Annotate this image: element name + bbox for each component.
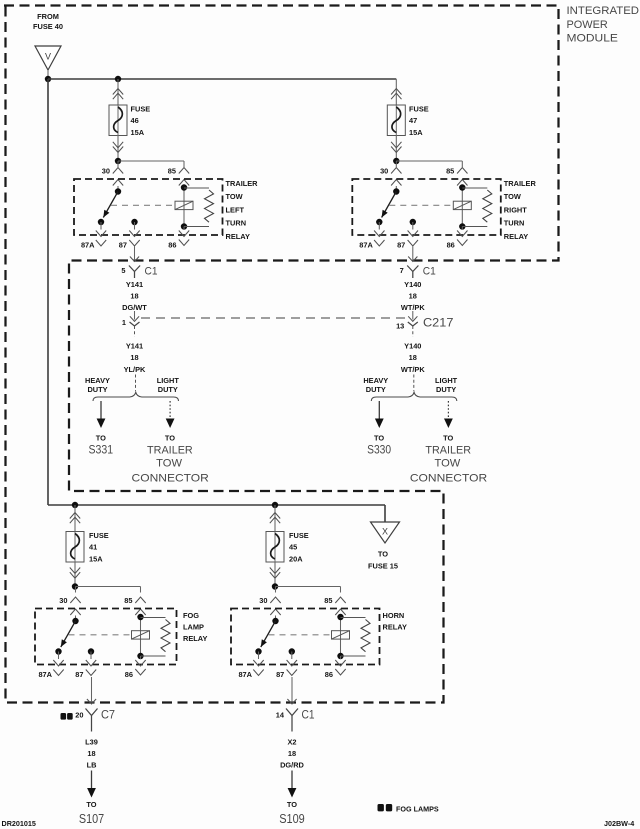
svg-text:HEAVY: HEAVY: [85, 376, 110, 385]
node: fuse 46 tap junction: [115, 76, 121, 82]
relay coil branch wire: [140, 616, 142, 657]
fuse 46 15A: [109, 105, 150, 138]
label TO S109: [279, 800, 305, 826]
svg-text:HORN: HORN: [383, 611, 405, 620]
pin 87 wire and chevrons: [129, 222, 139, 246]
wire label Y140 18 WT/PK: [401, 280, 425, 312]
power symbol X - to fuse 15: [371, 522, 400, 543]
svg-text:FOG LAMPS: FOG LAMPS: [396, 804, 439, 813]
svg-text:RELAY: RELAY: [504, 232, 528, 241]
pin 30 connector chevrons: [113, 168, 123, 186]
svg-text:5: 5: [121, 266, 125, 275]
wire: V triangle to top bus: [47, 70, 49, 79]
pin 87 wire and chevrons: [408, 222, 418, 246]
relay coil: [453, 201, 471, 209]
wire label L39 18 LB: [85, 738, 98, 770]
svg-text:V: V: [45, 52, 51, 62]
wire: relay feed split to pins 30 and 85: [396, 161, 462, 167]
label HEAVY DUTY: [363, 376, 388, 394]
svg-text:15A: 15A: [131, 128, 145, 137]
drawing number J02BW-4: [604, 819, 634, 828]
wire stub into brace: [135, 375, 137, 392]
pin 86 label: [447, 241, 455, 250]
svg-text:FUSE 15: FUSE 15: [368, 562, 398, 571]
svg-text:DG/RD: DG/RD: [280, 760, 304, 769]
pin 30 label: [380, 167, 388, 176]
relay coil branch wire: [340, 616, 342, 657]
wire to splice S109: [288, 771, 297, 798]
wire: relay feed split to pins 30 and 85: [118, 161, 184, 167]
wire: drop to fuse 41: [70, 505, 80, 532]
svg-text:FOG: FOG: [183, 611, 199, 620]
node: pin 87 contact: [289, 648, 295, 654]
integrated power module boundary (dashed outline): [4, 6, 559, 703]
svg-text:LEFT: LEFT: [226, 205, 245, 214]
pin 86 wire and chevrons: [135, 656, 145, 675]
pin number 5: [121, 266, 125, 275]
svg-text:Y141: Y141: [126, 341, 143, 350]
pin 87A label: [81, 241, 95, 250]
wire label Y140 18 WT/PK: [401, 341, 425, 374]
svg-text:FUSE: FUSE: [289, 531, 309, 540]
svg-text:RELAY: RELAY: [383, 622, 407, 631]
svg-text:WT/PK: WT/PK: [401, 303, 425, 312]
heavy duty branch wire and arrow: [375, 401, 384, 428]
svg-text:TOW: TOW: [504, 192, 521, 201]
relay suppression resistor: [341, 618, 371, 657]
svg-text:TRAILER: TRAILER: [504, 179, 537, 188]
svg-text:DG/WT: DG/WT: [122, 303, 147, 312]
svg-text:FUSE: FUSE: [409, 105, 429, 114]
connector C1 pin 7 (arrow into Y): [407, 257, 418, 279]
wire: dashed connection line at C217: [141, 317, 407, 319]
svg-text:30: 30: [102, 167, 110, 176]
label: INTEGRATED POWER MODULE: [567, 5, 640, 45]
svg-text:87: 87: [276, 670, 284, 679]
relay box outline: [231, 609, 380, 665]
svg-text:30: 30: [380, 167, 388, 176]
drawing number DR201015: [2, 819, 36, 828]
svg-text:X: X: [382, 527, 388, 537]
relay name label: [504, 179, 537, 241]
svg-text:S331: S331: [89, 442, 114, 456]
svg-text:LIGHT: LIGHT: [435, 376, 458, 385]
wire: relay pin 87 down to connector C1: [412, 247, 414, 261]
svg-text:S109: S109: [279, 812, 305, 826]
relay coil: [175, 201, 193, 209]
svg-text:TRAILER: TRAILER: [425, 444, 471, 456]
wire: drop to fuse 45: [270, 505, 280, 532]
pin 87 label: [119, 241, 127, 250]
svg-text:TO: TO: [287, 800, 297, 809]
svg-text:18: 18: [130, 292, 138, 301]
wire stub into brace: [413, 375, 415, 392]
pin 87 wire and chevrons: [287, 652, 297, 676]
svg-text:LIGHT: LIGHT: [157, 376, 180, 385]
wire label Y141 18 DG/WT: [122, 280, 147, 312]
pin 30 connector chevrons: [70, 597, 80, 615]
pin 86 wire and chevrons: [457, 227, 467, 246]
label TO S107: [79, 800, 104, 826]
svg-text:DUTY: DUTY: [158, 385, 178, 394]
connector C1 pin 5 (arrow into Y): [129, 257, 140, 279]
svg-text:C217: C217: [423, 316, 454, 330]
wire: left vertical feed down to lower bus: [47, 79, 49, 505]
svg-text:20: 20: [75, 710, 83, 719]
svg-text:INTEGRATED: INTEGRATED: [567, 5, 640, 17]
svg-text:87: 87: [75, 670, 83, 679]
wire: relay feed split to pins 30 and 85: [276, 587, 341, 593]
svg-text:MODULE: MODULE: [567, 33, 618, 45]
svg-text:41: 41: [89, 543, 97, 552]
wire: fuse 47 drop from bus corner: [391, 79, 401, 105]
relay box outline: [35, 609, 177, 665]
pin 87A wire and chevrons: [253, 652, 263, 676]
relay coil: [332, 631, 350, 639]
svg-text:86: 86: [325, 670, 333, 679]
svg-text:46: 46: [131, 116, 139, 125]
power symbol V - feed from fuse 40: [35, 46, 61, 70]
pin 85 label: [446, 167, 454, 176]
svg-text:DUTY: DUTY: [366, 385, 386, 394]
label TO TRAILER TOW CONNECTOR: [132, 433, 209, 484]
svg-text:30: 30: [59, 596, 67, 605]
node: coil top: [337, 614, 343, 620]
svg-text:85: 85: [446, 167, 454, 176]
node: coil top: [459, 184, 465, 190]
svg-text:87A: 87A: [81, 241, 95, 250]
label TO S330: [367, 433, 391, 456]
svg-text:DUTY: DUTY: [436, 385, 456, 394]
node: coil bottom: [337, 653, 343, 659]
relay switch common (pin 30) and blade to 87A: [382, 186, 400, 218]
svg-text:7: 7: [400, 266, 404, 275]
connector C217 pin 13: [408, 311, 418, 337]
svg-text:TO: TO: [378, 550, 388, 559]
relay name label: [183, 611, 207, 643]
wire: lower horizontal bus: [48, 504, 385, 506]
svg-text:C7: C7: [101, 708, 115, 722]
node: fuse 41 output junction: [72, 583, 78, 589]
pin 85 connector chevrons: [179, 168, 189, 186]
label C1: [145, 266, 158, 278]
wire: relay pin 87 down to C7: [91, 677, 93, 703]
fog lamps reference squares: [61, 713, 73, 720]
fuse 47 15A: [387, 105, 428, 138]
wire: relay pin 87 down to connector C1: [134, 247, 136, 261]
svg-text:TOW: TOW: [435, 457, 461, 469]
wire: relay pin 87 down to C1: [291, 677, 293, 703]
svg-text:X2: X2: [287, 738, 296, 747]
label TO S331: [89, 433, 114, 456]
svg-text:15A: 15A: [409, 128, 423, 137]
brace split heavy/light duty: [93, 392, 179, 401]
svg-text:14: 14: [276, 710, 285, 719]
node: fuse 45 output junction: [272, 583, 278, 589]
svg-text:85: 85: [168, 167, 176, 176]
pin 85 label: [324, 596, 332, 605]
svg-text:TOW: TOW: [226, 192, 243, 201]
svg-text:86: 86: [168, 241, 176, 250]
pin 86 wire and chevrons: [179, 227, 189, 246]
svg-text:RELAY: RELAY: [226, 232, 250, 241]
relay box outline: [352, 179, 501, 235]
wire: top horizontal bus: [48, 78, 396, 80]
brace split heavy/light duty: [371, 392, 457, 401]
svg-text:87A: 87A: [238, 670, 252, 679]
svg-text:30: 30: [259, 596, 267, 605]
svg-text:87A: 87A: [38, 670, 52, 679]
svg-text:FUSE 40: FUSE 40: [33, 22, 63, 31]
label C1: [302, 708, 315, 722]
svg-text:LB: LB: [87, 760, 97, 769]
label TO TRAILER TOW CONNECTOR: [410, 433, 487, 484]
node: fuse 45 tap: [272, 502, 278, 508]
svg-text:18: 18: [130, 353, 138, 362]
pin 87 label: [276, 670, 284, 679]
relay suppression resistor: [184, 188, 214, 227]
relay name label: [226, 179, 259, 241]
relay coil: [132, 631, 150, 639]
label: TO FUSE 15: [368, 550, 398, 571]
relay: trailer tow right turn relay: [0, 0, 1, 1]
legend: fog lamps: [378, 804, 439, 813]
wire: relay feed split to pins 30 and 85: [76, 587, 141, 593]
svg-text:47: 47: [409, 116, 417, 125]
wire: drop to fuse 46 with connector chevrons: [113, 79, 123, 105]
svg-text:87: 87: [119, 241, 127, 250]
relay box outline: [74, 179, 223, 235]
svg-text:86: 86: [447, 241, 455, 250]
wire: fuse 41 output: [70, 562, 80, 587]
svg-text:TURN: TURN: [226, 219, 247, 228]
node: pin 87 contact: [410, 219, 416, 225]
label C7: [101, 708, 115, 722]
connector C7 pin 20: [86, 699, 98, 732]
label C217: [423, 316, 454, 330]
pin 30 label: [59, 596, 67, 605]
pin 86 label: [125, 670, 133, 679]
pin 85 connector chevrons: [335, 597, 345, 615]
pin 87A label: [359, 241, 373, 250]
svg-text:TRAILER: TRAILER: [226, 179, 259, 188]
svg-text:CONNECTOR: CONNECTOR: [132, 472, 209, 484]
pin number 13: [396, 322, 404, 331]
pin 86 wire and chevrons: [335, 656, 345, 675]
svg-text:18: 18: [409, 353, 417, 362]
relay suppression resistor: [141, 618, 171, 657]
wire: fuse 47 output with chevrons: [391, 136, 401, 162]
pin 87A wire and chevrons: [96, 222, 106, 246]
svg-text:YL/PK: YL/PK: [124, 365, 146, 374]
pin 85 label: [168, 167, 176, 176]
label HEAVY DUTY: [85, 376, 110, 394]
wire label Y141 18 YL/PK: [124, 341, 146, 374]
svg-text:C1: C1: [423, 266, 436, 278]
node: coil bottom: [137, 653, 143, 659]
pin 86 label: [325, 670, 333, 679]
pin 87 label: [397, 241, 405, 250]
pin number 1: [122, 318, 126, 327]
svg-text:WT/PK: WT/PK: [401, 365, 425, 374]
relay: horn relay: [0, 0, 1, 1]
label LIGHT DUTY: [435, 376, 458, 394]
mechanical link (dashed) switch to coil: [111, 204, 175, 206]
pin 85 connector chevrons: [135, 597, 145, 615]
fuse 41 15A: [66, 531, 109, 564]
svg-text:TO: TO: [96, 433, 106, 442]
svg-text:1: 1: [122, 318, 126, 327]
svg-text:45: 45: [289, 543, 297, 552]
pin number 7: [400, 266, 404, 275]
pin 85 connector chevrons: [457, 168, 467, 186]
wire: fuse 45 output: [270, 562, 280, 587]
svg-text:87A: 87A: [359, 241, 373, 250]
svg-text:POWER: POWER: [567, 19, 608, 31]
node: coil bottom: [181, 223, 187, 229]
pin 30 label: [259, 596, 267, 605]
pin number 14: [276, 710, 285, 719]
pin 87 label: [75, 670, 83, 679]
pin 86 label: [168, 241, 176, 250]
fuse 45 20A: [266, 531, 309, 564]
pin 30 connector chevrons: [270, 597, 280, 615]
svg-text:FUSE: FUSE: [131, 105, 151, 114]
node: pin 87 contact: [88, 648, 94, 654]
svg-text:Y140: Y140: [404, 341, 421, 350]
svg-text:TO: TO: [443, 433, 453, 442]
node: pin 87A contact: [98, 219, 104, 225]
relay switch common (pin 30) and blade to 87A: [261, 616, 279, 648]
svg-text:18: 18: [288, 749, 296, 758]
svg-text:13: 13: [396, 322, 404, 331]
svg-text:LAMP: LAMP: [183, 622, 204, 631]
pin 87A wire and chevrons: [374, 222, 384, 246]
mechanical link (dashed) switch to coil: [389, 204, 453, 206]
pin 87A wire and chevrons: [53, 652, 63, 676]
wire label X2 18 DG/RD: [280, 738, 304, 770]
node: pin 87A contact: [255, 648, 261, 654]
svg-text:86: 86: [125, 670, 133, 679]
svg-text:L39: L39: [85, 738, 98, 747]
svg-text:S107: S107: [79, 812, 104, 826]
label LIGHT DUTY: [157, 376, 180, 394]
relay coil branch wire: [183, 186, 185, 227]
relay: trailer tow left turn relay: [0, 0, 1, 1]
svg-text:S330: S330: [367, 442, 391, 456]
svg-text:C1: C1: [302, 708, 315, 722]
relay name label: [383, 611, 407, 631]
relay coil branch wire: [461, 186, 463, 227]
label C1: [423, 266, 436, 278]
node: coil top: [181, 184, 187, 190]
connector C1 pin 14: [286, 699, 298, 732]
svg-text:Y140: Y140: [404, 280, 421, 289]
relay: fog lamp relay: [0, 0, 1, 1]
pin 30 label: [102, 167, 110, 176]
svg-text:CONNECTOR: CONNECTOR: [410, 472, 487, 484]
pin 85 label: [124, 596, 132, 605]
pin 30 connector chevrons: [391, 168, 401, 186]
node: pin 87A contact: [376, 219, 382, 225]
svg-text:RELAY: RELAY: [183, 634, 207, 643]
svg-text:87: 87: [397, 241, 405, 250]
svg-text:FUSE: FUSE: [89, 531, 109, 540]
label: FROM FUSE 40: [33, 12, 63, 31]
svg-text:85: 85: [324, 596, 332, 605]
svg-text:FROM: FROM: [37, 12, 59, 21]
svg-text:85: 85: [124, 596, 132, 605]
wire: bus to X triangle: [384, 505, 386, 522]
svg-text:DR201015: DR201015: [2, 819, 36, 828]
relay switch common (pin 30) and blade to 87A: [61, 616, 79, 648]
mechanical link (dashed) switch to coil: [269, 634, 332, 636]
svg-text:TOW: TOW: [156, 457, 182, 469]
svg-text:DUTY: DUTY: [87, 385, 107, 394]
node: pin 87 contact: [131, 219, 137, 225]
svg-text:TURN: TURN: [504, 219, 525, 228]
pin 87A label: [238, 670, 252, 679]
node: top bus left corner junction: [45, 76, 51, 82]
light duty branch wire and arrow: [166, 401, 175, 428]
node: fuse 41 tap: [72, 502, 78, 508]
svg-text:J02BW-4: J02BW-4: [604, 819, 634, 828]
svg-text:HEAVY: HEAVY: [363, 376, 388, 385]
node: fuse 47 output junction: [393, 158, 399, 164]
svg-text:C1: C1: [145, 266, 158, 278]
svg-text:Y141: Y141: [126, 280, 143, 289]
pin number 20: [75, 710, 83, 719]
mechanical link (dashed) switch to coil: [69, 634, 132, 636]
svg-text:TO: TO: [374, 433, 384, 442]
node: coil bottom: [459, 223, 465, 229]
svg-text:RIGHT: RIGHT: [504, 205, 527, 214]
light duty branch wire and arrow: [444, 401, 453, 428]
svg-text:TRAILER: TRAILER: [147, 444, 193, 456]
pin 87 wire and chevrons: [86, 652, 96, 676]
relay switch common (pin 30) and blade to 87A: [103, 186, 121, 218]
svg-text:20A: 20A: [289, 555, 303, 564]
node: pin 87A contact: [55, 648, 61, 654]
relay suppression resistor: [462, 188, 492, 227]
pin 87A label: [38, 670, 52, 679]
svg-text:TO: TO: [165, 433, 175, 442]
svg-text:18: 18: [87, 749, 95, 758]
node: coil top: [137, 614, 143, 620]
wire: fuse 46 output with chevrons: [113, 136, 123, 162]
node: fuse 46 output junction: [115, 158, 121, 164]
svg-text:TO: TO: [86, 800, 96, 809]
svg-text:18: 18: [409, 292, 417, 301]
heavy duty branch wire and arrow: [97, 401, 106, 428]
wire to splice S107: [87, 771, 96, 798]
connector C217 pin 1: [130, 311, 140, 337]
svg-text:15A: 15A: [89, 555, 103, 564]
